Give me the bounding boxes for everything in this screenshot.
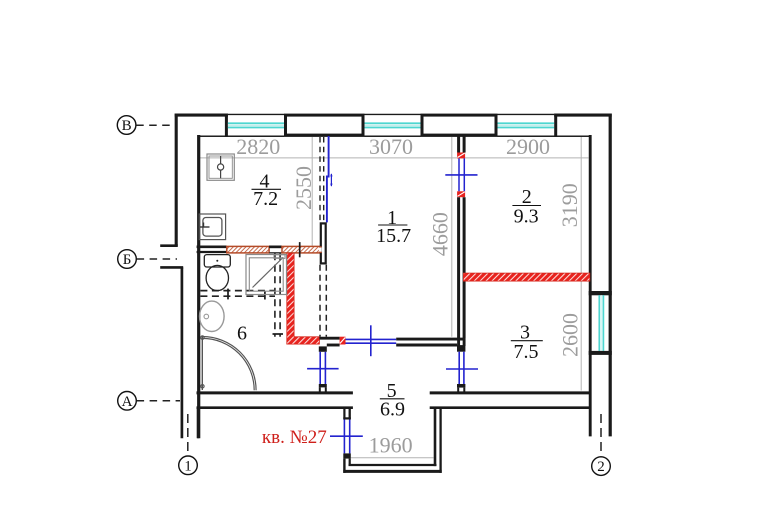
svg-text:В: В bbox=[122, 118, 132, 134]
svg-text:2820: 2820 bbox=[236, 134, 280, 159]
dimension line bay 1960 bbox=[351, 457, 434, 459]
red new wall between rooms 2 and 3 bbox=[463, 273, 589, 281]
svg-text:2550: 2550 bbox=[291, 166, 316, 210]
blue cross corridor left bbox=[307, 368, 339, 370]
new blue infill doorway rooms 1-2 bbox=[459, 158, 464, 191]
svg-text:6: 6 bbox=[237, 322, 247, 344]
wall: bay right bbox=[435, 409, 441, 473]
dimension line horizontal top rooms bbox=[199, 157, 589, 159]
axis B dashed line bbox=[136, 124, 174, 126]
break symbol arrows on blue line bbox=[330, 173, 332, 187]
svg-text:Б: Б bbox=[123, 252, 132, 268]
new blue wall corridor left bbox=[320, 352, 325, 384]
tick mark 1 on toilet partition bbox=[227, 289, 229, 300]
wall: black segment mid bbox=[269, 246, 282, 253]
wall: bay left cap bottom bbox=[343, 453, 351, 458]
wall: corridor left stub top bbox=[319, 346, 327, 351]
partition toilet/room6 dashed bbox=[200, 291, 275, 297]
wall: bay bottom bbox=[343, 465, 441, 471]
blue cross corridor right bbox=[446, 368, 478, 370]
room 1 label bbox=[376, 207, 411, 247]
axis 2 dashed line bbox=[600, 414, 602, 456]
tick mark 2 on toilet partition bbox=[264, 291, 266, 300]
red seal block top bbox=[457, 153, 465, 159]
red seal block bottom bbox=[457, 191, 465, 197]
wall: corridor left stub bottom bbox=[319, 384, 327, 392]
wall: new partition blue line kitchen bbox=[326, 136, 330, 222]
svg-text:15.7: 15.7 bbox=[376, 225, 411, 247]
shower tray bbox=[246, 255, 287, 295]
axis 2 bottom bbox=[592, 457, 611, 476]
room 2 label bbox=[512, 186, 541, 227]
wall: corridor top black left bit bbox=[319, 338, 339, 345]
wall: demolished section 1 hatched bbox=[227, 246, 269, 253]
axis A dashed line bbox=[137, 400, 180, 402]
svg-text:3190: 3190 bbox=[557, 183, 582, 227]
wall: staircase wall below bottom-left bbox=[197, 409, 199, 439]
blue cross doorway rooms 1-2 bbox=[445, 174, 477, 176]
wall: corridor right stub bottom bbox=[457, 384, 465, 392]
svg-text:кв. №27: кв. №27 bbox=[262, 427, 327, 448]
svg-text:4660: 4660 bbox=[427, 212, 452, 256]
wall: partition room6/corridor dashed bbox=[320, 265, 326, 337]
washbasin oval room 6 bbox=[200, 301, 225, 331]
window W4 right wall cap top bbox=[589, 291, 612, 295]
wall: corridor right stub top bbox=[457, 345, 465, 352]
new blue wall bay left bbox=[344, 420, 349, 454]
window W3 top wall bbox=[498, 114, 555, 136]
axis 1 dashed line bbox=[187, 414, 189, 456]
svg-text:2: 2 bbox=[597, 459, 605, 475]
axis Б middle-left bbox=[118, 250, 137, 269]
svg-text:1960: 1960 bbox=[369, 432, 413, 457]
kitchen stove/heater symbol bbox=[207, 154, 234, 180]
wall: corridor top black right segment bbox=[396, 339, 465, 345]
svg-text:А: А bbox=[122, 394, 133, 410]
kitchen sink symbol bbox=[199, 214, 225, 240]
partition room6/toilet vertical dashed bbox=[275, 253, 280, 337]
wall: left outer upper bbox=[175, 114, 178, 246]
blue cross bay left / leader to label bbox=[330, 435, 363, 437]
axis Б dashed line bbox=[137, 258, 177, 260]
wall: bottom band left section bbox=[197, 393, 353, 408]
window W2 top wall bbox=[365, 114, 421, 136]
wall: bay outline bottom-left corner bbox=[344, 459, 349, 473]
wall: partition rooms 1-2 / 1-3 lower bbox=[459, 197, 465, 338]
room 5 label bbox=[380, 380, 405, 421]
wall: left inner (kitchen/bath west) bbox=[197, 135, 200, 438]
svg-text:2900: 2900 bbox=[506, 134, 550, 159]
toilet bbox=[204, 255, 230, 291]
wall: kitchen partition solid lower part bbox=[319, 223, 326, 263]
wall: pier 2 top wall bbox=[422, 115, 496, 135]
wall: right outer bbox=[609, 114, 612, 437]
wall: inner edge of top wall bbox=[198, 135, 591, 137]
red new wall corner L in bathroom bbox=[287, 253, 320, 344]
axis A (А) bottom-left bbox=[118, 392, 137, 411]
svg-text:9.3: 9.3 bbox=[514, 205, 539, 227]
blue cross corridor top bbox=[370, 325, 372, 356]
wall: left stub upper at axis Б bbox=[160, 244, 178, 247]
wall: partition rooms 1-2 upper bbox=[459, 136, 465, 152]
wall: bay left stub at bottom wall bbox=[343, 409, 351, 420]
door arc room 6 bbox=[201, 336, 256, 390]
window W4 right wall bbox=[599, 295, 603, 351]
wall: right inner bbox=[589, 135, 592, 436]
window W1 top wall bbox=[228, 114, 284, 136]
svg-text:7.2: 7.2 bbox=[253, 188, 278, 210]
room 4 label bbox=[252, 171, 282, 211]
dimension line vertical kitchen 2550 bbox=[311, 137, 313, 247]
svg-text:3070: 3070 bbox=[369, 134, 413, 159]
red seal square corridor bbox=[340, 337, 346, 345]
svg-text:6.9: 6.9 bbox=[380, 399, 405, 421]
dimension line vertical room1 4660 bbox=[451, 137, 453, 337]
new blue wall corridor top bbox=[346, 339, 397, 343]
svg-text:2600: 2600 bbox=[557, 313, 582, 357]
wall: top-right corner block bbox=[554, 114, 612, 137]
wall: kitchen east partition dashed (demolished) bbox=[320, 137, 324, 222]
wall: pier 1 top wall bbox=[286, 115, 364, 135]
wall: left stub lower at axis Б bbox=[160, 266, 183, 269]
axis B (В) top-left bbox=[117, 116, 136, 135]
wall: bottom band right section bbox=[430, 393, 592, 408]
wall: kitchen-bath wall left black section bbox=[197, 247, 227, 252]
svg-text:1: 1 bbox=[184, 458, 192, 474]
dimension line vertical rooms 2-3 bbox=[580, 137, 582, 391]
wall: demolished section 2 hatched bbox=[282, 246, 321, 253]
tick mark on vertical dashed partition bbox=[273, 333, 284, 335]
wall: corridor right top corner piece bbox=[459, 339, 465, 346]
axis 1 bottom bbox=[179, 456, 198, 475]
new blue wall corridor right bbox=[459, 352, 464, 384]
window W4 right wall cap bottom bbox=[589, 351, 612, 355]
tick mark on demolished wall bbox=[299, 242, 301, 257]
wall: top-left corner block bbox=[175, 114, 228, 137]
wall: left outer lower bbox=[181, 267, 184, 438]
room 3 label bbox=[511, 322, 543, 363]
svg-text:7.5: 7.5 bbox=[514, 341, 539, 363]
